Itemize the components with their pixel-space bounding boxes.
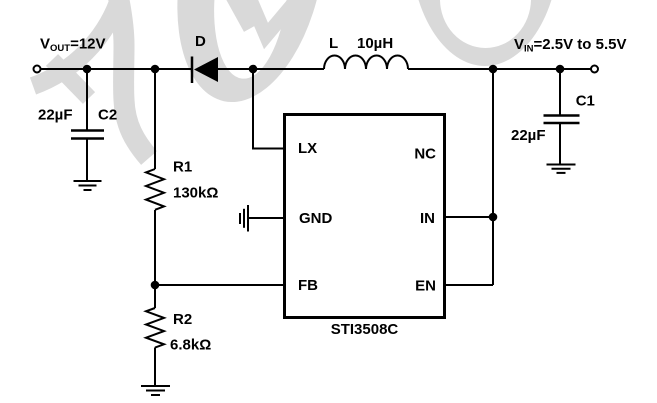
svg-text:D: D — [195, 33, 206, 50]
svg-text:IN: IN — [420, 210, 435, 227]
svg-text:FB: FB — [298, 277, 318, 294]
svg-text:130kΩ: 130kΩ — [173, 185, 218, 202]
svg-text:C1: C1 — [576, 93, 595, 110]
svg-text:EN: EN — [415, 278, 436, 295]
svg-text:STI3508C: STI3508C — [331, 321, 399, 338]
svg-text:10µH: 10µH — [357, 35, 393, 52]
svg-text:LX: LX — [298, 140, 317, 157]
svg-text:C2: C2 — [98, 107, 117, 124]
svg-text:VOUT=12V: VOUT=12V — [40, 36, 106, 55]
svg-text:6.8kΩ: 6.8kΩ — [170, 337, 211, 354]
svg-text:L: L — [329, 35, 338, 52]
svg-text:22µF: 22µF — [511, 127, 546, 144]
svg-text:NC: NC — [414, 146, 436, 163]
svg-text:22µF: 22µF — [38, 107, 73, 124]
svg-text:GND: GND — [299, 210, 333, 227]
svg-text:R2: R2 — [173, 311, 192, 328]
svg-text:R1: R1 — [173, 159, 192, 176]
